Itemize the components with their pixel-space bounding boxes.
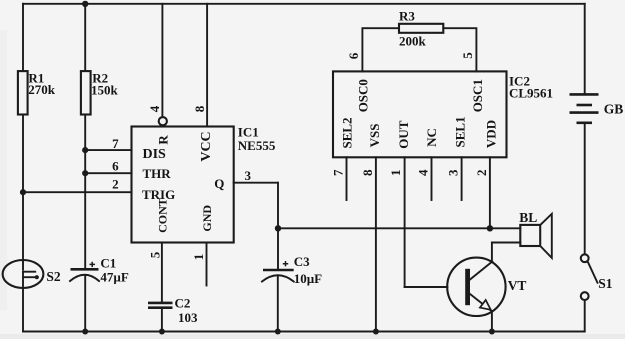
wire base (OUT to transistor base) [405, 286, 448, 288]
svg-text:GND: GND [200, 205, 214, 232]
transistor collector [470, 243, 492, 280]
wire pin6 THR to R2 line [85, 172, 131, 174]
svg-text:3: 3 [245, 168, 252, 183]
svg-text:S2: S2 [46, 269, 61, 284]
svg-text:VDD: VDD [483, 120, 498, 148]
wire left rail upper (top rail to R1) [22, 4, 24, 71]
svg-text:BL: BL [519, 210, 537, 225]
svg-text:VT: VT [508, 278, 527, 293]
wire pin2 TRIG to left rail [23, 191, 132, 193]
svg-text:OUT: OUT [396, 120, 411, 149]
svg-text:C1: C1 [100, 256, 116, 271]
node junction C3/ground [275, 329, 281, 335]
IC2 pin 1 OUT wire down [404, 157, 406, 287]
node junction TRIG/left rail [20, 189, 26, 195]
node junction output/C3 [275, 225, 281, 231]
pin 8 VCC wire [206, 4, 208, 127]
transistor VT circle [447, 258, 505, 316]
svg-text:SEL1: SEL1 [453, 116, 468, 147]
svg-text:150k: 150k [91, 83, 119, 98]
svg-text:VCC: VCC [199, 131, 214, 161]
svg-text:4: 4 [147, 105, 162, 112]
wire left rail middle (R1 to S2) [22, 115, 24, 261]
IC2 pin 3 SEL1 stub wire [461, 157, 463, 200]
wire emitter to ground rail [491, 311, 493, 332]
svg-text:R3: R3 [399, 8, 415, 23]
speaker BL [520, 225, 540, 246]
svg-text:8: 8 [192, 105, 207, 112]
svg-text:C2: C2 [175, 296, 191, 311]
IC2 CL9561 box [333, 71, 507, 157]
node junction DIS/R2 [82, 147, 88, 153]
svg-text:8: 8 [360, 169, 375, 176]
node junction top rail / R2 [82, 1, 88, 7]
C1 plus sign [90, 262, 96, 267]
svg-text:6: 6 [112, 158, 119, 173]
svg-text:CONT: CONT [156, 198, 170, 233]
wire S2 to ground rail [22, 288, 24, 332]
node junction emitter/ground [489, 329, 495, 335]
svg-text:THR: THR [143, 166, 172, 181]
IC2 pin 2 VDD wire down to output node [489, 157, 491, 228]
wire R2 bottom (R2 down to C1) [84, 115, 86, 269]
svg-text:3: 3 [446, 169, 461, 176]
capacitor C3 10uF [263, 269, 294, 272]
C3 plus sign [283, 261, 288, 266]
node junction THR/R2 [82, 170, 88, 176]
svg-text:1: 1 [388, 169, 403, 176]
svg-text:Q: Q [214, 176, 224, 191]
svg-text:270k: 270k [28, 82, 56, 97]
battery GB [584, 4, 586, 93]
wire bottom ground rail [23, 331, 585, 333]
node junction VDD wire [487, 225, 493, 231]
wire R2 top (top rail to R2) [84, 4, 86, 71]
wire R3 left to pin6 [362, 28, 399, 71]
svg-text:2: 2 [112, 176, 119, 191]
svg-text:VSS: VSS [367, 124, 382, 148]
IC1 NE555 timer box [132, 127, 234, 243]
pin 5 CONT wire down [161, 243, 163, 302]
svg-text:C3: C3 [294, 254, 310, 269]
svg-text:5: 5 [147, 251, 162, 258]
capacitor C1 47uF [71, 268, 99, 271]
node junction C2/ground [159, 329, 165, 335]
node junction VSS/ground [373, 329, 379, 335]
wire S1 to ground rail [584, 300, 586, 332]
svg-text:7: 7 [112, 136, 119, 151]
wire output node to speaker (horizontal) [278, 227, 520, 229]
svg-text:R: R [155, 135, 170, 145]
svg-text:OSC0: OSC0 [356, 79, 371, 112]
wire top supply rail [23, 3, 585, 5]
svg-text:6: 6 [346, 52, 361, 59]
svg-text:10µF: 10µF [294, 271, 322, 286]
wire collector to speaker bottom terminal [492, 242, 520, 244]
resistor R2 [81, 71, 91, 114]
wire pin3 Q output [234, 182, 278, 184]
svg-text:CL9561: CL9561 [509, 86, 553, 101]
svg-text:DIS: DIS [143, 147, 167, 162]
svg-text:S1: S1 [598, 276, 613, 291]
svg-text:NE555: NE555 [238, 138, 276, 153]
svg-text:47µF: 47µF [100, 270, 128, 285]
switch S1 [581, 254, 589, 262]
wire output vertical down to C3 [277, 183, 279, 269]
IC2 pin 7 stub wire [346, 157, 348, 200]
IC2 pin 8 VSS wire to ground rail [375, 157, 377, 331]
node junction C1/ground [82, 329, 88, 335]
capacitor C2 103 [148, 302, 173, 305]
wire R3 right to pin5 [443, 28, 476, 71]
switch S2 (vibration switch) [3, 260, 44, 288]
svg-text:4: 4 [416, 169, 431, 176]
resistor R3 [399, 24, 443, 33]
svg-text:1: 1 [191, 254, 206, 261]
svg-text:GB: GB [604, 102, 624, 117]
svg-text:5: 5 [460, 52, 475, 59]
svg-text:2: 2 [474, 169, 489, 176]
svg-text:NC: NC [424, 128, 439, 147]
svg-text:200k: 200k [399, 33, 427, 48]
resistor R1 [18, 71, 28, 114]
svg-text:7: 7 [331, 169, 346, 176]
pin 1 GND stub wire [206, 243, 208, 286]
IC2 pin 4 NC stub wire [431, 157, 433, 200]
transistor base bar [465, 269, 470, 305]
svg-text:103: 103 [178, 310, 198, 325]
transistor emitter with arrow [470, 294, 492, 311]
wire pin7 DIS to R2 line [85, 149, 131, 151]
pin 4 reset wire with circle [161, 4, 163, 117]
svg-text:OSC1: OSC1 [470, 79, 485, 112]
svg-text:SEL2: SEL2 [339, 117, 354, 148]
